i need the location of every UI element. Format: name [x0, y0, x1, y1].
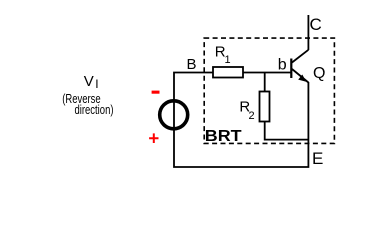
transistor Q base bar — [290, 59, 292, 79]
svg-text:B: B — [187, 56, 197, 73]
svg-text:2: 2 — [249, 110, 255, 122]
svg-text:V: V — [84, 73, 94, 90]
wire outer loop: base node B, left branch through source, bottom return, emitter riser — [174, 73, 308, 168]
transistor Q emitter arrow — [298, 75, 306, 82]
transistor Q collector lead — [292, 50, 308, 63]
wire collector vertical to C — [307, 15, 309, 50]
svg-text:b: b — [278, 56, 287, 73]
svg-text:I: I — [95, 77, 98, 91]
wire R2 bottom to emitter — [265, 121, 309, 140]
svg-text:BRT: BRT — [205, 128, 242, 145]
polarity minus — [152, 91, 160, 94]
svg-text:Q: Q — [313, 65, 325, 82]
transistor Q emitter lead — [292, 69, 308, 83]
voltage source VI circle — [160, 101, 188, 129]
svg-text:E: E — [312, 149, 323, 168]
resistor R2 — [260, 92, 270, 122]
resistor R1 — [213, 67, 243, 78]
svg-text:direction): direction) — [75, 102, 114, 117]
wire R2 top drop from junction — [264, 73, 266, 93]
dashed box BRT module — [204, 38, 334, 143]
polarity plus — [149, 133, 158, 143]
svg-text:1: 1 — [225, 54, 231, 66]
svg-text:C: C — [310, 15, 322, 34]
